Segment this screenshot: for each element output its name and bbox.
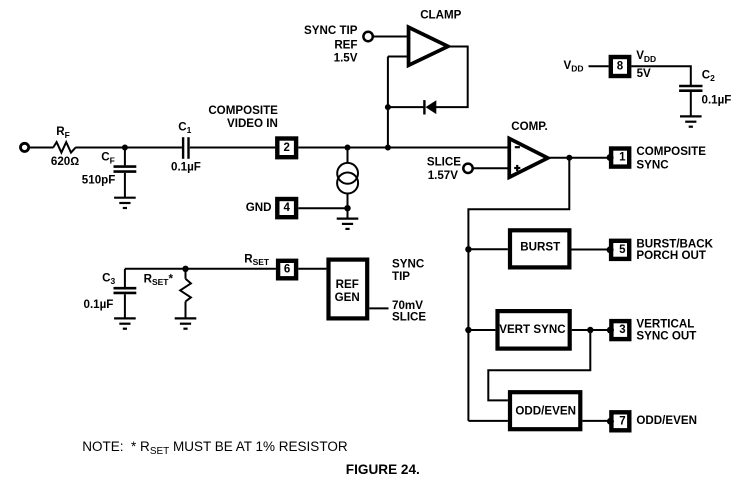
- svg-text:3: 3: [619, 324, 625, 336]
- svg-text:5V: 5V: [637, 67, 651, 80]
- pin 2: [277, 139, 296, 158]
- node E: [385, 104, 391, 110]
- wire: [190, 147, 275, 149]
- pin 6: [278, 261, 296, 279]
- node B: [345, 145, 351, 151]
- svg-text:SYNC OUT: SYNC OUT: [636, 330, 696, 343]
- block BURST: [510, 230, 569, 267]
- pin 3: [607, 321, 629, 339]
- wire: [29, 147, 53, 149]
- pin 5: [607, 241, 630, 259]
- svg-text:COMPOSITE: COMPOSITE: [208, 104, 278, 117]
- ground: [114, 318, 136, 328]
- capacitor C1: [182, 137, 184, 159]
- svg-text:5: 5: [619, 244, 626, 256]
- svg-text:510pF: 510pF: [82, 174, 116, 187]
- svg-text:0.1µF: 0.1µF: [171, 160, 201, 173]
- ground: [680, 116, 702, 126]
- svg-text:1.5V: 1.5V: [334, 52, 358, 65]
- ground: [175, 318, 197, 328]
- svg-text:ODD/EVEN: ODD/EVEN: [636, 414, 697, 427]
- svg-text:1.57V: 1.57V: [428, 169, 459, 182]
- svg-text:8: 8: [617, 61, 624, 73]
- wire: [388, 106, 425, 108]
- wire VERT SYNC to pin3: [572, 329, 609, 331]
- svg-text:4: 4: [283, 202, 290, 214]
- wire to VERT SYNC: [468, 329, 495, 331]
- node I: [587, 327, 593, 333]
- node G: [465, 246, 471, 252]
- svg-text:PORCH OUT: PORCH OUT: [636, 249, 706, 262]
- svg-text:7: 7: [619, 415, 625, 427]
- node J: [182, 266, 188, 272]
- sync tip ref terminal: [363, 32, 372, 41]
- bus wire: [468, 158, 569, 421]
- node D: [344, 205, 350, 211]
- svg-text:SYNC TIP: SYNC TIP: [304, 24, 358, 37]
- svg-text:SLICE: SLICE: [392, 310, 426, 323]
- wire BURST to pin5: [572, 249, 609, 251]
- svg-text:BURST: BURST: [520, 240, 560, 253]
- wire VDD: [589, 65, 609, 67]
- wire: [387, 57, 389, 108]
- slice terminal: [463, 164, 472, 173]
- svg-text:REF: REF: [334, 38, 357, 51]
- resistor RSET: [185, 269, 187, 279]
- capacitor C2: [679, 85, 702, 88]
- svg-text:0.1µF: 0.1µF: [84, 298, 114, 311]
- svg-text:GND: GND: [246, 201, 272, 214]
- svg-text:6: 6: [284, 264, 290, 276]
- svg-text:SYNC: SYNC: [392, 257, 425, 270]
- pin 8: [611, 57, 629, 76]
- svg-text:VERT SYNC: VERT SYNC: [499, 323, 566, 336]
- ground: [114, 198, 136, 208]
- pin 1: [607, 149, 630, 167]
- svg-text:VERTICAL: VERTICAL: [636, 317, 694, 330]
- svg-text:1: 1: [619, 152, 626, 164]
- node F: [566, 155, 572, 161]
- resistor RF: [53, 142, 75, 153]
- block VERT SYNC: [498, 311, 570, 349]
- ground: [337, 219, 359, 229]
- node A: [122, 145, 128, 151]
- svg-text:COMPOSITE: COMPOSITE: [636, 145, 706, 158]
- svg-text:COMP.: COMP.: [511, 120, 548, 133]
- wire: [473, 167, 509, 169]
- input terminal: [21, 143, 29, 151]
- svg-text:TIP: TIP: [392, 270, 410, 283]
- wire vert branch: [488, 330, 590, 400]
- node C: [385, 145, 391, 151]
- wire pin2 to comp: [298, 147, 508, 149]
- op-amp CLAMP: [407, 24, 453, 68]
- capacitor CF: [124, 148, 126, 166]
- wire: [373, 36, 409, 38]
- svg-text:FIGURE 24.: FIGURE 24.: [346, 462, 420, 477]
- comparator U1: [507, 136, 552, 181]
- svg-text:620Ω: 620Ω: [51, 155, 79, 168]
- wire bus to ODD/EVEN: [468, 420, 508, 422]
- wire comp out: [550, 157, 609, 159]
- svg-text:SYNC: SYNC: [636, 158, 669, 171]
- pin 4: [277, 199, 296, 217]
- svg-text:SLICE: SLICE: [427, 155, 461, 168]
- wire feedback: [436, 47, 468, 108]
- svg-text:0.1µF: 0.1µF: [702, 93, 732, 106]
- wire GND pin4: [298, 207, 347, 209]
- block REF GEN: [329, 260, 368, 319]
- block ODD/EVEN: [510, 392, 580, 429]
- wire ODD/EVEN to pin7: [582, 420, 609, 422]
- wire ref top: [125, 268, 276, 270]
- pin 7: [607, 412, 629, 430]
- node H: [465, 327, 471, 333]
- svg-text:VIDEO IN: VIDEO IN: [227, 117, 278, 130]
- svg-text:ODD/EVEN: ODD/EVEN: [515, 404, 576, 417]
- wire refgen out: [369, 307, 388, 309]
- svg-text:CLAMP: CLAMP: [420, 9, 461, 22]
- wire: [75, 147, 181, 149]
- diode D1: [426, 100, 437, 114]
- wire pin6 to refgen: [298, 268, 326, 270]
- svg-text:REF: REF: [336, 278, 359, 291]
- wire to BURST: [468, 248, 508, 250]
- svg-text:2: 2: [283, 142, 289, 154]
- capacitor C3: [124, 269, 126, 288]
- svg-text:GEN: GEN: [335, 291, 360, 304]
- current source I1: [347, 148, 349, 164]
